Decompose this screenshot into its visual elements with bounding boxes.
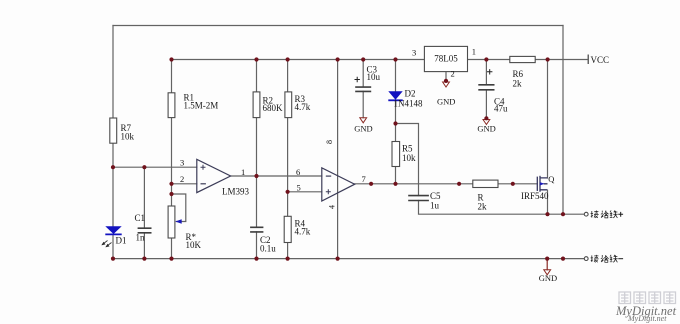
GND texts xyxy=(354,97,557,284)
D1 light arrows xyxy=(102,241,111,247)
svg-text:7: 7 xyxy=(362,174,366,184)
wire: pin2 input line xyxy=(172,183,197,185)
svg-text:10k: 10k xyxy=(121,132,135,142)
svg-text:D2: D2 xyxy=(405,89,416,99)
svg-text:GND: GND xyxy=(354,124,372,134)
resistor R (horizontal) xyxy=(473,180,498,187)
svg-text:R5: R5 xyxy=(402,144,413,154)
pot wiper arrowhead (blue) xyxy=(175,219,182,223)
wire: C1 branch xyxy=(143,167,145,258)
wire: right outer vertical to iron+ xyxy=(562,26,564,215)
wire: pot bottom xyxy=(171,238,173,259)
C3 plus xyxy=(355,77,360,82)
svg-text:2k: 2k xyxy=(478,202,488,212)
svg-text:78L05: 78L05 xyxy=(434,54,458,64)
wire: gnd stub below bottom rail xyxy=(546,259,548,270)
pin numbers xyxy=(180,47,476,210)
svg-text:GND: GND xyxy=(539,273,557,283)
svg-text:3: 3 xyxy=(180,157,184,167)
wire: op1 out to op2 pin6 xyxy=(231,175,322,177)
resistor R6 (horizontal) xyxy=(510,56,535,62)
capacitor C3 plates xyxy=(355,87,371,91)
svg-text:3: 3 xyxy=(412,48,416,58)
diode D1 (photo) xyxy=(102,226,122,247)
wire: C4 branch xyxy=(485,60,487,119)
C4 plus xyxy=(487,69,492,74)
potentiometer R* body xyxy=(168,206,175,238)
svg-text:LM393: LM393 xyxy=(222,187,250,197)
node: pin2/pot xyxy=(169,182,173,186)
wire: regulator output rail xyxy=(468,59,588,61)
svg-text:GND: GND xyxy=(437,97,455,107)
svg-text:8: 8 xyxy=(325,140,334,144)
node: op1 out xyxy=(254,174,258,178)
wire: bottom rail xyxy=(113,258,584,260)
node: pin7 line xyxy=(369,182,373,186)
wire: left rail top (R7 branch) xyxy=(112,26,114,119)
resistor R5 xyxy=(392,142,400,167)
resistor R1 xyxy=(168,93,175,118)
ground below 78L05 pin2 xyxy=(443,82,450,87)
wire: left rail mid xyxy=(112,143,114,226)
plus marks for electrolytics xyxy=(355,69,493,82)
svg-text:IRF540: IRF540 xyxy=(521,191,549,201)
svg-text:4: 4 xyxy=(328,205,337,209)
svg-text:680K: 680K xyxy=(263,103,284,113)
node: rail dots xyxy=(169,57,173,61)
wire: pin5 line xyxy=(288,191,322,193)
resistor R2 xyxy=(253,92,260,118)
wire: pin3 input line xyxy=(113,166,197,168)
svg-text:10K: 10K xyxy=(186,240,202,250)
svg-text:4.7k: 4.7k xyxy=(295,102,311,112)
resistor R7 xyxy=(110,118,117,143)
svg-text:C5: C5 xyxy=(430,191,441,201)
wire: C3 branch xyxy=(362,60,364,118)
svg-text:4.7k: 4.7k xyxy=(295,227,311,237)
regulator U 78L05 box xyxy=(424,46,467,71)
diode D2 1N4148 xyxy=(388,91,402,100)
svg-text:2k: 2k xyxy=(513,79,523,89)
VCC tick xyxy=(587,55,589,65)
svg-text:C1: C1 xyxy=(135,213,146,223)
svg-text:VCC: VCC xyxy=(591,55,610,65)
svg-text:1.5M-2M: 1.5M-2M xyxy=(184,101,219,111)
svg-text:6: 6 xyxy=(296,167,300,177)
svg-text:2: 2 xyxy=(451,69,455,79)
wire: op2 power column xyxy=(337,60,339,259)
ground below C4 xyxy=(483,120,490,125)
terminal circle iron- xyxy=(584,257,588,261)
svg-text:5: 5 xyxy=(297,182,301,192)
wire: left rail below D1 xyxy=(112,235,114,258)
wire: pot wiper bracket xyxy=(172,194,186,222)
wire: iron+ line right xyxy=(548,213,585,215)
svg-text:1N4148: 1N4148 xyxy=(394,99,423,109)
watermark xyxy=(615,292,677,323)
svg-text:R6: R6 xyxy=(513,69,524,79)
wire: D2 junction to C5 branch xyxy=(396,124,548,215)
svg-text:10k: 10k xyxy=(402,153,416,163)
svg-text:47u: 47u xyxy=(494,104,508,114)
svg-text:Q: Q xyxy=(548,174,554,184)
svg-text:1: 1 xyxy=(472,47,476,57)
svg-text:10u: 10u xyxy=(367,72,381,82)
svg-text:1u: 1u xyxy=(430,201,440,211)
ground below iron- rail xyxy=(544,270,551,275)
wire: inner VCC-in rail xyxy=(172,59,425,61)
wire: 78L05 pin2 stub xyxy=(445,72,447,81)
wire: op2 output to gate xyxy=(355,183,538,185)
svg-text:2: 2 xyxy=(180,174,184,184)
svg-text:0.1u: 0.1u xyxy=(260,244,276,254)
wire: R2 column xyxy=(256,60,258,259)
resistor R3 xyxy=(285,92,292,118)
capacitor C1 plates xyxy=(138,85,495,233)
node: C4 gnd xyxy=(484,116,488,120)
transistor Q IRF540 xyxy=(537,176,547,214)
wire: D2 column xyxy=(395,60,397,184)
wire: R1 bottom to pot xyxy=(171,118,173,206)
ground below C3 xyxy=(360,118,367,123)
svg-text:1: 1 xyxy=(241,167,245,177)
capacitor C2 plates xyxy=(250,227,263,232)
wire: outer top rail xyxy=(113,25,563,27)
node: iron- terminal label xyxy=(591,255,624,262)
svg-text:MyDigit.net: MyDigit.net xyxy=(627,314,667,323)
wire: R1 top xyxy=(171,60,173,93)
svg-text:D1: D1 xyxy=(116,236,127,246)
op-amp U1A LM393 xyxy=(197,159,231,192)
terminal circle iron+ xyxy=(584,212,588,216)
node: pin5 xyxy=(286,190,290,194)
svg-text:GND: GND xyxy=(477,124,495,134)
node: D2 junction xyxy=(393,121,397,125)
resistor R4 xyxy=(284,216,291,242)
node: iron+ terminal label xyxy=(591,210,624,217)
node: bottom rail xyxy=(111,257,115,261)
capacitor C5 plates xyxy=(408,196,429,201)
node: 78L05 pin2 gnd xyxy=(444,79,448,83)
capacitor C4 plates xyxy=(478,85,494,90)
svg-text:1n: 1n xyxy=(136,233,146,243)
node: pin3 line xyxy=(111,165,115,169)
wire: R3/R4 column xyxy=(287,60,289,259)
node: iron+ line xyxy=(545,212,549,216)
wire: drain column xyxy=(547,60,549,179)
op-amp U1B LM393 xyxy=(322,168,355,201)
